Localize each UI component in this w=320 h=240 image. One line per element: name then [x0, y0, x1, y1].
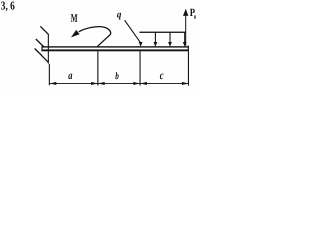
beam top line	[42, 46, 189, 47]
dim arrowhead b-left	[98, 82, 105, 85]
wall hatch 3	[35, 49, 42, 56]
wall hatch 1	[40, 26, 48, 34]
dim arrowhead b-right	[133, 82, 140, 85]
beam bottom line	[42, 49, 189, 51]
q leader line	[125, 20, 141, 42]
svg-text:P: P	[190, 7, 196, 19]
svg-text:b: b	[115, 71, 119, 82]
extension line 1 (under wall)	[49, 64, 50, 86]
svg-text:a: a	[68, 70, 72, 82]
q arrow 1 head	[139, 42, 143, 47]
moment M arrowhead	[71, 30, 80, 38]
dim arrowhead a-left	[50, 82, 57, 85]
moment M curl arrow arc	[79, 27, 111, 48]
dimension line	[49, 82, 188, 85]
q load baseline	[139, 32, 186, 33]
beam left end cap	[41, 46, 42, 51]
dim arrowhead c-right	[182, 82, 189, 85]
beam right end cap	[188, 46, 189, 52]
extension line 4 (right end)	[188, 51, 189, 85]
svg-text:q: q	[117, 10, 122, 21]
force P arrowhead (up)	[183, 9, 188, 16]
svg-text:3, 6: 3, 6	[1, 0, 15, 13]
svg-text:M: M	[71, 11, 78, 25]
fixed support wall line	[48, 34, 49, 64]
dim arrowhead a-right	[91, 82, 98, 85]
wall hatch 4	[41, 55, 48, 62]
q arrow 2	[154, 32, 158, 47]
dim arrowhead c-left	[140, 82, 147, 85]
wall hatch 2	[36, 39, 44, 47]
extension line 3 (b/c boundary)	[140, 51, 141, 85]
q arrow 4	[183, 32, 187, 47]
extension line 2 (a/b boundary)	[97, 51, 98, 85]
svg-text:c: c	[160, 70, 164, 82]
q arrow 3	[168, 32, 172, 47]
force P arrow shaft	[185, 16, 186, 46]
